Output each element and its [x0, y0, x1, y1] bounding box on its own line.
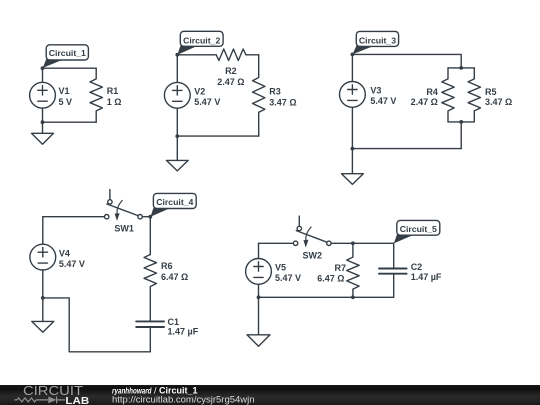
wire top-left C2: [177, 54, 216, 56]
svg-text:Circuit_5: Circuit_5: [400, 224, 437, 234]
node top-left C2: [175, 53, 179, 57]
wire V5 to switch: [259, 242, 294, 244]
svg-text:R7: R7: [334, 263, 346, 273]
svg-text:6.47 Ω: 6.47 Ω: [317, 274, 344, 284]
resistor R5: [468, 68, 480, 122]
node bottom C2: [175, 134, 179, 138]
label C2 value 1.47 uF: [411, 262, 442, 282]
svg-text:5.47 V: 5.47 V: [275, 273, 301, 283]
svg-text:V5: V5: [275, 262, 286, 272]
svg-text:6.47 Ω: 6.47 Ω: [161, 272, 188, 282]
label R7 value 6.47 ohm: [317, 263, 346, 284]
ground C2: [166, 136, 188, 171]
resistor R1: [90, 68, 102, 122]
node top-left C1: [41, 66, 45, 70]
svg-text:1.47 µF: 1.47 µF: [411, 272, 442, 282]
svg-text:SW1: SW1: [114, 224, 134, 234]
wire bottom C2: [177, 135, 258, 137]
svg-text:LAB: LAB: [65, 396, 89, 405]
wire bottom C4: [43, 298, 151, 352]
wire V4 to switch: [43, 216, 105, 218]
svg-text:R2: R2: [225, 66, 237, 76]
wire node down to R6: [149, 217, 151, 255]
svg-text:R4: R4: [426, 87, 438, 97]
voltage source V3: [340, 54, 366, 148]
label V5 value 5.47 V: [275, 262, 301, 283]
balloon Circuit_2: [177, 31, 223, 54]
wire bottom C1: [43, 121, 97, 123]
svg-text:V1: V1: [59, 86, 70, 96]
svg-text:C2: C2: [411, 262, 423, 272]
svg-text:C1: C1: [168, 317, 180, 327]
svg-text:Circuit_3: Circuit_3: [359, 35, 396, 45]
svg-text:http://circuitlab.com/cysjr5rg: http://circuitlab.com/cysjr5rg54wjn: [112, 394, 255, 405]
label R4 value 2.47 ohm: [411, 87, 438, 107]
svg-text:R1: R1: [107, 86, 119, 96]
svg-text:R3: R3: [269, 87, 281, 97]
wire top C3: [352, 54, 461, 68]
wire parallel rail bottom: [448, 121, 474, 123]
svg-text:5 V: 5 V: [59, 97, 73, 107]
wire top-right C2: [246, 54, 259, 56]
resistor R3: [253, 55, 265, 136]
svg-text:R6: R6: [161, 261, 173, 271]
balloon Circuit_3: [353, 31, 399, 54]
wire bottom C5: [259, 296, 394, 298]
label V1 value 5 V: [59, 86, 73, 107]
wire bottom C3: [352, 148, 461, 150]
node bottom C4: [41, 296, 45, 300]
wire down from parallel pair: [460, 122, 462, 149]
switch SW1: [105, 190, 143, 221]
voltage source V2: [164, 55, 190, 136]
voltage source V5: [246, 243, 272, 297]
svg-text:5.47 V: 5.47 V: [194, 97, 220, 107]
node bottom C5: [257, 295, 261, 299]
wire switch to node C4: [142, 216, 150, 218]
node parallel bottom: [459, 120, 463, 124]
svg-text:5.47 V: 5.47 V: [370, 96, 396, 106]
svg-text:R5: R5: [485, 87, 497, 97]
wire parallel rail top: [448, 67, 474, 69]
voltage source V1: [30, 68, 56, 122]
node R7 bottom: [351, 295, 355, 299]
svg-text:V3: V3: [370, 85, 381, 95]
switch SW2: [293, 216, 331, 247]
label R5 value 3.47 ohm: [485, 87, 512, 107]
balloon Circuit_4: [151, 193, 197, 216]
resistor R7: [347, 243, 359, 297]
balloon Circuit_5: [394, 220, 440, 243]
label R2 value 2.47 ohm: [217, 66, 244, 87]
svg-text:1.47 µF: 1.47 µF: [168, 326, 199, 336]
logo resistor-diode line: [14, 397, 65, 404]
label V3 value 5.47 V: [370, 85, 396, 106]
ground C5: [247, 297, 270, 346]
svg-text:5.47 V: 5.47 V: [59, 259, 85, 269]
svg-text:Circuit_2: Circuit_2: [183, 35, 220, 45]
svg-text:V4: V4: [59, 248, 70, 258]
node parallel top: [459, 66, 463, 70]
label V4 value 5.47 V: [59, 248, 85, 269]
ground C1: [32, 122, 54, 144]
wire top C1: [43, 67, 97, 69]
resistor R2 horizontal: [216, 49, 246, 61]
balloon Circuit_1: [43, 45, 89, 68]
capacitor C2: [379, 243, 407, 297]
svg-text:SW2: SW2: [303, 250, 323, 260]
ground C4: [32, 298, 54, 332]
node switch common C4: [148, 215, 152, 219]
node R7 top: [351, 241, 355, 245]
resistor R6: [144, 255, 156, 322]
node bottom C1: [41, 120, 45, 124]
resistor R4: [442, 68, 454, 122]
svg-text:Circuit_1: Circuit_1: [49, 48, 86, 58]
svg-text:3.47 Ω: 3.47 Ω: [485, 97, 512, 107]
svg-text:Circuit_4: Circuit_4: [156, 197, 193, 207]
label R3 value 3.47 ohm: [269, 87, 296, 108]
node bottom C3: [351, 147, 355, 151]
svg-text:2.47 Ω: 2.47 Ω: [217, 77, 244, 87]
node top-left C3: [351, 53, 355, 57]
label V2 value 5.47 V: [194, 86, 220, 107]
ground C3: [342, 149, 364, 185]
label R1 value 1 ohm: [107, 86, 122, 107]
svg-text:3.47 Ω: 3.47 Ω: [269, 97, 296, 107]
svg-text:1 Ω: 1 Ω: [107, 97, 122, 107]
voltage source V4: [30, 217, 56, 298]
wire switch to C2 node: [331, 242, 394, 244]
capacitor C1: [136, 321, 164, 351]
svg-text:2.47 Ω: 2.47 Ω: [411, 97, 438, 107]
label C1 value 1.47 uF: [168, 317, 199, 337]
svg-text:V2: V2: [194, 86, 205, 96]
label R6 value 6.47 ohm: [161, 261, 188, 282]
